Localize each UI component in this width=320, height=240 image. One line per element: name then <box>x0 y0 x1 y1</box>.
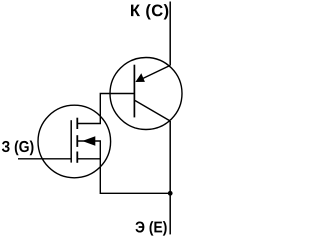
node Э(E) emitter terminal label <box>135 221 166 236</box>
node K(C) collector terminal label <box>131 4 168 19</box>
wire: emitter rail from BJT collector down to Э(E) <box>169 121 171 234</box>
MOSFET Q2 drain lead <box>78 123 101 125</box>
MOSFET Q2 body circle <box>38 105 111 178</box>
transistor Q1 collector lead <box>135 101 170 122</box>
transistor Q1 emitter arrowhead (PNP, points to base) <box>135 73 145 82</box>
wire: gate lead from З(G) to gate bar <box>18 158 71 160</box>
transistor Q1 PNP BJT body circle <box>110 58 182 130</box>
wire: body-to-source tie <box>99 141 101 159</box>
MOSFET Q2 source lead <box>78 158 101 160</box>
transistor Q1 emitter lead <box>137 65 170 81</box>
MOSFET Q2 channel dash source segment <box>76 152 78 163</box>
wire: drain up and over to BJT base <box>100 94 134 124</box>
MOSFET Q2 body lead <box>78 140 101 142</box>
wire: source down to emitter rail <box>100 159 170 194</box>
MOSFET Q2 channel dash drain segment <box>76 118 78 129</box>
MOSFET Q2 channel dash body segment <box>76 135 78 147</box>
wire: collector rail from K(C) down to BJT emitter junction <box>169 2 171 66</box>
transistor Q1 base bar <box>133 65 135 118</box>
junction dot on emitter rail <box>168 191 173 196</box>
MOSFET Q2 body arrowhead (n-channel, points to channel) <box>82 136 95 146</box>
MOSFET Q2 gate bar <box>70 120 72 162</box>
node З(G) gate terminal label <box>2 140 34 155</box>
